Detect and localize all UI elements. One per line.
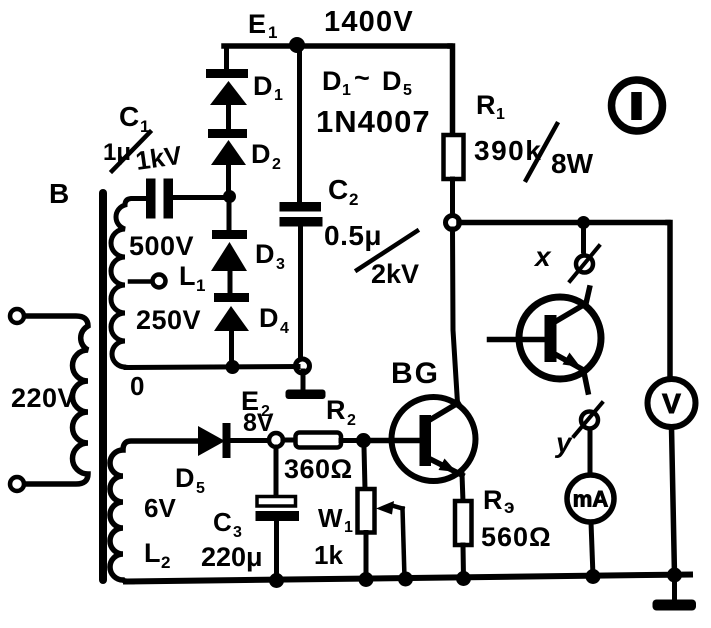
node junction R2 / W1 / BG base xyxy=(356,433,371,448)
svg-text:2: 2 xyxy=(347,412,356,429)
diode D4 xyxy=(214,293,249,331)
ground (0V tap) xyxy=(286,390,326,400)
diode D2 xyxy=(208,129,247,165)
label 250V xyxy=(136,305,201,335)
label D3 xyxy=(255,239,285,273)
transformer secondary winding L1 xyxy=(111,199,145,368)
transformer B core xyxy=(99,193,107,580)
label R1 xyxy=(476,90,505,123)
terminal y probe circle xyxy=(574,403,602,436)
tap L1 terminal circle xyxy=(130,275,166,288)
svg-text:220V: 220V xyxy=(11,383,76,413)
label W1 xyxy=(318,503,353,536)
svg-text:250V: 250V xyxy=(136,305,201,335)
label R2 xyxy=(326,395,356,429)
svg-text:1400V: 1400V xyxy=(324,6,414,38)
svg-text:1μ: 1μ xyxy=(103,139,131,166)
svg-text:0.5μ: 0.5μ xyxy=(324,220,382,251)
terminal primary top xyxy=(10,309,24,323)
wire BG collector up to node xyxy=(453,229,458,403)
label 1N4007 xyxy=(316,104,431,139)
svg-text:1: 1 xyxy=(342,82,351,99)
wire D5 to node E2 xyxy=(230,438,267,443)
label 8W xyxy=(551,148,594,179)
figure number 1 circled xyxy=(612,80,663,131)
svg-text:390k: 390k xyxy=(474,135,542,166)
label B xyxy=(49,178,69,209)
node E1 junction dot xyxy=(289,37,305,53)
label 360ohm xyxy=(284,454,353,484)
wire junction to D3 xyxy=(227,196,232,232)
capacitor C3 electrolytic xyxy=(256,497,300,522)
wire 0-tap horizontal xyxy=(126,367,298,368)
wire R1 to collector node xyxy=(450,179,455,215)
svg-text:3: 3 xyxy=(276,256,285,273)
label C3 xyxy=(213,507,242,541)
label 0.5u xyxy=(324,220,382,251)
svg-text:D: D xyxy=(251,139,271,169)
label L2 xyxy=(144,538,170,572)
svg-text:D: D xyxy=(322,66,342,96)
svg-text:1: 1 xyxy=(344,519,353,536)
label 1400V xyxy=(324,6,414,38)
wire E1 corner down to D1 xyxy=(224,46,230,70)
label 500V xyxy=(129,231,194,261)
svg-text:500V: 500V xyxy=(129,231,194,261)
node junction C1/diode string xyxy=(223,190,236,203)
svg-text:220μ: 220μ xyxy=(201,542,263,572)
wire corner down to voltmeter xyxy=(668,223,670,379)
wire stem to ground bar xyxy=(301,371,306,391)
svg-text:5: 5 xyxy=(196,480,205,497)
label 220V xyxy=(11,383,76,413)
label L1 xyxy=(179,261,205,295)
label D5 xyxy=(175,463,205,497)
diode D5 xyxy=(198,423,231,458)
svg-text:3: 3 xyxy=(233,524,242,541)
slash C1 value xyxy=(112,132,150,171)
wire D1 to D2 xyxy=(226,104,231,131)
svg-text:6V: 6V xyxy=(144,493,176,523)
svg-text:D: D xyxy=(253,71,273,101)
label D1 xyxy=(253,71,283,104)
svg-text:L: L xyxy=(179,261,196,291)
label C2 xyxy=(328,174,358,209)
label D4 xyxy=(259,303,289,337)
wire bottom rail xyxy=(126,575,690,582)
label C1 xyxy=(119,101,149,136)
node junction R1/BG collector xyxy=(446,216,460,230)
svg-text:2: 2 xyxy=(161,553,170,572)
svg-text:0: 0 xyxy=(130,371,144,401)
wire D3 to D4 xyxy=(228,270,233,295)
label D2 xyxy=(251,139,281,173)
svg-text:1: 1 xyxy=(496,106,505,123)
slash R1 value xyxy=(526,124,557,180)
wire E1 down to C2 xyxy=(297,45,302,202)
node junction W1 bottom on rail xyxy=(359,572,374,587)
slash C2 value xyxy=(357,231,417,270)
label 220u xyxy=(201,542,263,572)
wire V to bottom rail xyxy=(672,427,675,575)
transistor BG xyxy=(368,397,476,481)
capacitor C1 xyxy=(146,179,173,219)
transformer secondary winding L2 xyxy=(110,441,197,582)
svg-text:1: 1 xyxy=(268,23,277,42)
wire E2 to R2 xyxy=(283,438,296,443)
svg-text:D: D xyxy=(175,463,195,493)
resistor R3 (Re) xyxy=(455,501,472,545)
label 390k xyxy=(474,135,542,166)
svg-text:2: 2 xyxy=(349,190,358,209)
svg-text:L: L xyxy=(144,538,161,568)
wire collector rail to right xyxy=(459,220,668,226)
node junction W1 wiper on rail xyxy=(398,572,413,587)
svg-text:8V: 8V xyxy=(243,409,274,437)
wire x-probe stem xyxy=(581,228,586,251)
svg-text:4: 4 xyxy=(280,320,289,337)
svg-text:BG: BG xyxy=(391,357,440,390)
node junction 0-tap / C2 / ground xyxy=(296,359,310,373)
svg-text:D: D xyxy=(259,303,279,333)
svg-text:8W: 8W xyxy=(551,148,594,179)
wire y-probe to mA meter xyxy=(588,429,593,473)
svg-text:E: E xyxy=(248,9,266,39)
terminal primary bottom xyxy=(10,477,24,491)
svg-text:1N4007: 1N4007 xyxy=(316,104,431,139)
node junction mA on rail xyxy=(586,569,601,584)
transistor under test Q2 xyxy=(490,288,602,392)
wire C1 right to diode junction xyxy=(173,195,228,200)
label E1 xyxy=(248,9,277,42)
svg-text:C: C xyxy=(119,101,139,132)
svg-text:D: D xyxy=(382,66,402,96)
svg-text:2: 2 xyxy=(272,156,281,173)
svg-text:560Ω: 560Ω xyxy=(481,522,552,552)
meter mA xyxy=(567,475,614,522)
svg-text:1: 1 xyxy=(140,117,149,136)
diode D1 xyxy=(206,69,248,105)
wire top rail corner down to R1 xyxy=(450,46,453,136)
wire R2 to base node xyxy=(341,438,356,443)
meter V voltmeter xyxy=(648,379,696,427)
svg-text:1k: 1k xyxy=(314,540,343,570)
label x xyxy=(533,241,552,272)
svg-text:360Ω: 360Ω xyxy=(284,454,353,484)
wire mA to bottom rail xyxy=(591,522,593,576)
label BG xyxy=(391,357,440,390)
node junction C3 on rail xyxy=(269,573,284,588)
label 0 xyxy=(130,371,144,401)
svg-text:~: ~ xyxy=(354,63,370,93)
node junction R3 on rail xyxy=(456,571,471,586)
node junction ground on rail xyxy=(667,568,682,583)
wire D4 to 0-tap rail xyxy=(229,330,234,367)
label 8V xyxy=(243,409,274,437)
wire E2 down to C3 xyxy=(274,447,279,497)
svg-text:D: D xyxy=(255,239,275,269)
svg-text:W: W xyxy=(318,503,343,533)
label 560ohm xyxy=(481,522,552,552)
wire W1 bottom to rail xyxy=(364,533,369,579)
svg-text:y: y xyxy=(554,427,573,458)
svg-text:R: R xyxy=(326,395,346,425)
label 2kV xyxy=(371,259,419,289)
wire C3 down to rail xyxy=(274,521,279,580)
label 1u xyxy=(103,139,131,166)
node junction D4 bottom on 0-tap xyxy=(226,360,240,374)
label 1kV xyxy=(134,140,185,176)
potentiometer W1 xyxy=(358,489,405,578)
svg-text:mA: mA xyxy=(573,487,609,512)
svg-text:C: C xyxy=(213,507,232,537)
node E2 terminal circle xyxy=(269,433,283,447)
svg-text:1: 1 xyxy=(274,87,283,104)
svg-text:B: B xyxy=(49,178,69,209)
wire D2 to C1 junction xyxy=(226,164,231,196)
wire BG emitter down to R3 xyxy=(462,474,463,502)
terminal x probe circle xyxy=(570,246,599,281)
svg-text:R: R xyxy=(476,90,496,120)
wire C2 down to 0-tap junction xyxy=(298,226,303,366)
wire R3 to bottom rail xyxy=(461,545,467,578)
svg-text:1: 1 xyxy=(196,276,205,295)
label 6V xyxy=(144,493,176,523)
ground symbol bottom right xyxy=(653,575,697,611)
wire node to W1 xyxy=(364,447,365,489)
label 1k xyxy=(314,540,343,570)
resistor R1 xyxy=(444,135,464,179)
capacitor C2 xyxy=(280,202,323,227)
diode D3 xyxy=(211,230,247,271)
svg-text:5: 5 xyxy=(403,82,412,99)
label Re xyxy=(483,485,515,518)
resistor R2 xyxy=(296,433,342,448)
svg-text:C: C xyxy=(328,174,348,205)
node junction x-probe xyxy=(577,216,590,229)
svg-text:э: э xyxy=(504,497,515,518)
transformer primary winding 220V xyxy=(24,316,88,484)
label E2 xyxy=(241,386,270,420)
label y xyxy=(554,427,573,458)
svg-text:2kV: 2kV xyxy=(371,259,419,289)
wire top rail E1 to R1 xyxy=(224,43,450,49)
svg-text:V: V xyxy=(662,388,681,419)
svg-text:R: R xyxy=(483,485,503,515)
svg-text:x: x xyxy=(533,241,552,272)
label D1~D5 xyxy=(322,63,412,99)
